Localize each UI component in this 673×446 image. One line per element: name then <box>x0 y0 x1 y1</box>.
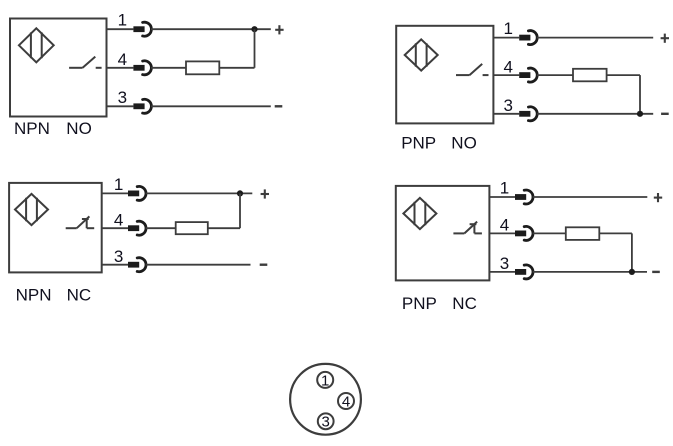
pin 1 connector pin <box>133 26 144 32</box>
wire pin3 to minus <box>533 271 647 273</box>
pin 1 stub wire <box>493 37 519 39</box>
svg-text:1: 1 <box>503 19 512 38</box>
riser wire to plus rail <box>239 193 241 228</box>
riser wire to plus rail <box>254 29 256 68</box>
wire pin4 to load <box>533 232 566 234</box>
connector face outline <box>290 364 361 435</box>
NO switch contact <box>69 67 83 69</box>
svg-text:PNP: PNP <box>402 294 437 313</box>
pin 1 connector pin <box>515 194 526 200</box>
svg-text:3: 3 <box>322 414 330 431</box>
svg-text:NO: NO <box>451 134 477 153</box>
svg-text:1: 1 <box>500 179 509 198</box>
NC switch contact <box>453 232 464 234</box>
pin 3 circle <box>318 413 334 429</box>
sensor box PNP NO <box>396 26 493 124</box>
svg-text:NPN: NPN <box>14 119 50 138</box>
proximity sensor symbol (diamond) <box>19 28 54 62</box>
junction dot <box>251 26 257 32</box>
plus terminal <box>661 37 669 39</box>
pin 4 connector socket <box>137 221 146 235</box>
minus terminal <box>661 113 669 115</box>
load resistor <box>176 222 208 234</box>
minus terminal <box>652 271 660 273</box>
minus terminal <box>260 264 268 266</box>
proximity sensor symbol (diamond) <box>405 39 438 70</box>
pin 1 connector pin <box>519 35 530 41</box>
pin 4 connector pin <box>128 225 139 231</box>
pin 1 connector pin <box>128 191 139 197</box>
pin 1 connector socket <box>528 31 537 45</box>
pin 3 stub wire <box>102 264 128 266</box>
svg-text:4: 4 <box>118 50 127 69</box>
wire load to riser <box>208 227 240 229</box>
wire pin1 to plus <box>146 192 253 194</box>
plus terminal <box>654 197 662 199</box>
minus terminal <box>275 105 283 107</box>
pin 3 stub wire <box>107 105 134 107</box>
pin 4 stub wire <box>493 74 519 76</box>
pin 3 connector pin <box>133 103 144 109</box>
pin 1 connector socket <box>524 190 533 204</box>
wire load to riser <box>599 232 632 234</box>
plus terminal <box>275 29 283 31</box>
pin 1 stub wire <box>107 28 134 30</box>
svg-text:3: 3 <box>114 247 123 266</box>
NO switch contact <box>456 74 470 76</box>
sensor box NPN NC <box>9 183 102 273</box>
pin 4 stub wire <box>102 227 128 229</box>
load resistor <box>566 227 600 240</box>
junction dot <box>637 111 643 117</box>
wire load to riser <box>219 67 254 69</box>
svg-text:3: 3 <box>118 88 127 107</box>
svg-text:4: 4 <box>503 58 512 77</box>
wire pin1 to plus <box>151 28 271 30</box>
pin 1 stub wire <box>102 192 128 194</box>
wire pin4 to load <box>151 67 186 69</box>
pin 3 connector pin <box>515 269 526 275</box>
svg-text:1: 1 <box>321 372 329 389</box>
load resistor <box>573 69 607 82</box>
pin 4 stub wire <box>489 232 515 234</box>
sensor box NPN NO <box>10 19 107 117</box>
pin 4 connector pin <box>515 231 526 237</box>
svg-text:4: 4 <box>342 393 350 410</box>
wire pin4 to load <box>146 227 176 229</box>
wire pin4 to load <box>537 74 573 76</box>
pin 4 connector pin <box>133 65 144 71</box>
riser wire to minus rail <box>639 75 641 114</box>
wire pin3 to minus <box>146 264 251 266</box>
pin 3 connector socket <box>524 265 533 279</box>
pin 1 stub wire <box>489 196 515 198</box>
wire pin3 to minus <box>537 113 653 115</box>
svg-text:NC: NC <box>67 286 92 305</box>
pin 4 connector socket <box>528 68 537 82</box>
wire load to riser <box>607 74 640 76</box>
svg-text:NO: NO <box>66 119 92 138</box>
plus terminal <box>261 193 269 195</box>
pin 1 connector socket <box>137 186 146 200</box>
wire pin1 to plus <box>537 37 653 39</box>
svg-text:1: 1 <box>114 175 123 194</box>
pin 3 connector socket <box>143 99 152 113</box>
svg-text:NC: NC <box>452 294 477 313</box>
pin 4 connector socket <box>524 226 533 240</box>
pin 4 stub wire <box>107 67 134 69</box>
pin 3 connector socket <box>528 107 537 121</box>
pin 3 connector pin <box>519 111 530 117</box>
riser wire to minus rail <box>631 233 633 272</box>
svg-text:PNP: PNP <box>401 134 436 153</box>
svg-text:4: 4 <box>500 216 509 235</box>
svg-text:3: 3 <box>503 96 512 115</box>
load resistor <box>186 61 219 74</box>
pin 3 stub wire <box>489 271 515 273</box>
proximity sensor symbol (diamond) <box>403 198 436 229</box>
junction dot <box>629 269 635 275</box>
NC switch contact <box>66 227 77 229</box>
pin 1 circle <box>317 372 333 388</box>
svg-text:NPN: NPN <box>16 286 52 305</box>
pin 3 stub wire <box>493 113 519 115</box>
junction dot <box>237 190 243 196</box>
pin 3 connector pin <box>128 262 139 268</box>
pin 4 connector socket <box>143 61 152 75</box>
svg-text:3: 3 <box>500 254 509 273</box>
sensor box PNP NC <box>396 186 490 281</box>
wire pin3 to minus <box>151 105 271 107</box>
pin 1 connector socket <box>143 22 152 36</box>
wire pin1 to plus <box>533 196 648 198</box>
svg-text:1: 1 <box>118 11 127 30</box>
pin 3 connector socket <box>137 258 146 272</box>
svg-text:4: 4 <box>114 210 123 229</box>
pin 4 circle <box>338 393 354 409</box>
proximity sensor symbol (diamond) <box>15 194 48 225</box>
pin 4 connector pin <box>519 72 530 78</box>
